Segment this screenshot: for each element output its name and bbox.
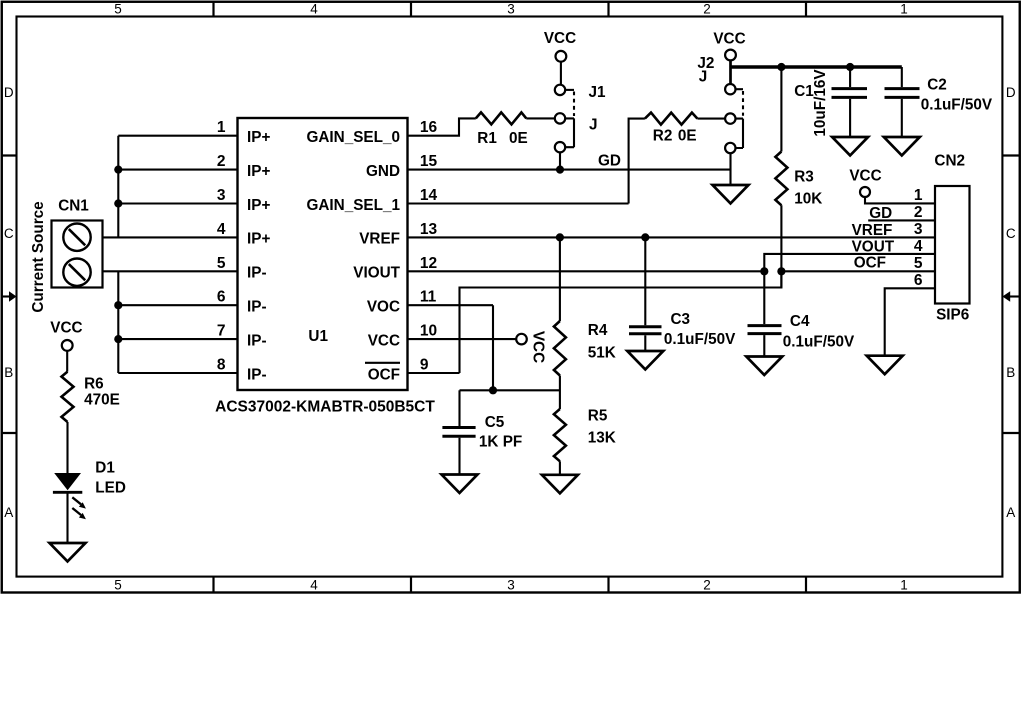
capacitor C2 bbox=[901, 67, 903, 87]
connector CN1 body bbox=[52, 221, 103, 288]
svg-text:1: 1 bbox=[900, 578, 908, 593]
svg-text:CN2: CN2 bbox=[934, 153, 965, 170]
wire R1 to J1 pin2 bbox=[526, 117, 555, 119]
svg-text:C3: C3 bbox=[671, 311, 691, 328]
svg-text:14: 14 bbox=[420, 187, 438, 204]
svg-text:R1: R1 bbox=[477, 130, 497, 147]
junction dot rail-C1 bbox=[846, 63, 854, 71]
frame zone ticks top bbox=[214, 2, 807, 17]
svg-text:C: C bbox=[1006, 226, 1016, 241]
wire D1 to ground bbox=[66, 492, 68, 543]
svg-text:R4: R4 bbox=[588, 322, 608, 339]
ground below C5 bbox=[442, 475, 478, 494]
CN1 screw terminal 1 bbox=[63, 224, 90, 251]
jumper J2 bbox=[725, 84, 735, 94]
svg-text:3: 3 bbox=[217, 187, 226, 204]
svg-text:IP+: IP+ bbox=[247, 163, 270, 180]
svg-text:3: 3 bbox=[507, 578, 515, 593]
svg-text:C2: C2 bbox=[927, 77, 947, 94]
svg-text:LED: LED bbox=[95, 479, 126, 496]
resistor R4 bbox=[554, 321, 566, 376]
wire R2 to J2 pin2 bbox=[697, 118, 725, 120]
svg-text:5: 5 bbox=[217, 255, 226, 272]
svg-text:GND: GND bbox=[366, 163, 400, 180]
svg-text:3: 3 bbox=[914, 221, 923, 238]
svg-text:GD: GD bbox=[598, 153, 621, 170]
svg-text:7: 7 bbox=[217, 323, 226, 340]
svg-text:0.1uF/50V: 0.1uF/50V bbox=[921, 96, 993, 113]
wire pin15 GND / GD net bbox=[408, 169, 731, 171]
svg-text:4: 4 bbox=[217, 221, 226, 238]
ground below R5 bbox=[542, 475, 578, 494]
junction dot pin3 bus bbox=[114, 199, 122, 207]
svg-text:VCC: VCC bbox=[50, 319, 82, 336]
wire R5 to ground bbox=[559, 461, 561, 475]
svg-text:2: 2 bbox=[217, 153, 226, 170]
svg-text:4: 4 bbox=[310, 2, 318, 17]
wire pin16 to R1 bbox=[408, 118, 476, 135]
svg-text:GD: GD bbox=[869, 205, 892, 222]
svg-text:13: 13 bbox=[420, 221, 438, 238]
wire pin2 bbox=[118, 169, 237, 171]
svg-text:4: 4 bbox=[914, 238, 923, 255]
wire CN2 pin2 GD bbox=[868, 219, 935, 221]
svg-text:B: B bbox=[4, 365, 13, 380]
svg-text:OCF: OCF bbox=[368, 366, 400, 383]
connector CN2 body bbox=[935, 186, 970, 304]
svg-text:IP-: IP- bbox=[247, 299, 267, 316]
svg-text:VCC: VCC bbox=[544, 30, 576, 47]
svg-text:1: 1 bbox=[217, 119, 226, 136]
svg-text:IP+: IP+ bbox=[247, 129, 270, 146]
svg-text:VCC: VCC bbox=[368, 332, 400, 349]
frame zone ticks left bbox=[2, 156, 17, 434]
svg-text:VCC: VCC bbox=[530, 331, 547, 363]
capacitor C1 bbox=[849, 67, 851, 87]
svg-text:2: 2 bbox=[914, 204, 923, 221]
svg-text:51K: 51K bbox=[588, 345, 616, 362]
VCC symbol at pin10 bbox=[516, 334, 527, 345]
svg-text:Current Source: Current Source bbox=[30, 201, 47, 312]
svg-text:1: 1 bbox=[900, 2, 908, 17]
svg-text:C: C bbox=[4, 226, 14, 241]
wire CN2 pin6 to ground bbox=[885, 288, 935, 355]
svg-text:2: 2 bbox=[703, 578, 711, 593]
wire IP+ bus (pins 1-3 to pin4 wire) bbox=[117, 136, 119, 238]
wire VCC to R6 bbox=[66, 351, 68, 372]
ground below C2 bbox=[884, 137, 920, 156]
svg-text:12: 12 bbox=[420, 255, 437, 272]
svg-text:C4: C4 bbox=[790, 313, 810, 330]
junction dot VREF-C3 bbox=[641, 233, 649, 241]
wire R4 to junction bbox=[559, 376, 561, 410]
resistor R1 bbox=[476, 112, 527, 124]
wire VIOUT pin12 bbox=[408, 270, 765, 272]
ground below D1 bbox=[50, 543, 86, 562]
svg-text:13K: 13K bbox=[588, 430, 616, 447]
svg-text:VIOUT: VIOUT bbox=[353, 265, 400, 282]
svg-text:U1: U1 bbox=[308, 328, 328, 345]
svg-text:11: 11 bbox=[420, 289, 437, 306]
svg-text:1: 1 bbox=[914, 187, 923, 204]
wire J2 pin3 down through GD line to ground bbox=[729, 153, 731, 185]
svg-text:1K PF: 1K PF bbox=[479, 433, 522, 450]
frame center arrow left bbox=[2, 295, 9, 297]
svg-text:5: 5 bbox=[914, 255, 923, 272]
junction dot J1-GND bbox=[556, 166, 564, 174]
junction dot pin6 bus bbox=[114, 301, 122, 309]
svg-text:5: 5 bbox=[114, 2, 122, 17]
svg-text:VOUT: VOUT bbox=[852, 239, 895, 256]
wire IP- bus (pins 6-8) bbox=[117, 271, 119, 373]
wire pin9 OCF bbox=[408, 372, 460, 374]
frame zone ticks right bbox=[1002, 156, 1019, 434]
svg-text:0E: 0E bbox=[678, 127, 697, 144]
svg-text:D1: D1 bbox=[95, 459, 115, 476]
svg-text:2: 2 bbox=[703, 2, 711, 17]
svg-text:J1: J1 bbox=[589, 84, 607, 101]
frame inner border bbox=[17, 17, 1003, 577]
svg-text:8: 8 bbox=[217, 357, 226, 374]
wire pin1 bbox=[118, 135, 237, 137]
frame center arrow right bbox=[1010, 295, 1020, 297]
resistor R5 bbox=[554, 409, 566, 461]
svg-text:VREF: VREF bbox=[852, 222, 893, 239]
junction dot VOC-C5 line bbox=[489, 386, 497, 394]
wire J1 pin3 to GND line bbox=[559, 153, 561, 170]
svg-text:C5: C5 bbox=[485, 414, 505, 431]
svg-text:R2: R2 bbox=[653, 127, 673, 144]
wire pin10 to VCC bbox=[408, 338, 517, 340]
svg-text:10uF/16V: 10uF/16V bbox=[812, 69, 829, 137]
svg-text:3: 3 bbox=[507, 2, 515, 17]
svg-text:6: 6 bbox=[914, 272, 923, 289]
svg-text:IP-: IP- bbox=[247, 265, 267, 282]
wire VREF dot down to R4 bbox=[559, 237, 561, 321]
ground below CN2 pin6 bbox=[867, 356, 903, 375]
wire pin7 bbox=[118, 338, 237, 340]
capacitor C3 bbox=[644, 237, 646, 325]
diode D1 LED bbox=[54, 473, 81, 490]
wire R4-R5 junction line to C5 bbox=[460, 389, 560, 391]
wire R3 to OCF line bbox=[780, 205, 782, 287]
svg-text:15: 15 bbox=[420, 153, 438, 170]
svg-text:16: 16 bbox=[420, 119, 438, 136]
svg-text:R5: R5 bbox=[588, 408, 608, 425]
svg-text:VOC: VOC bbox=[367, 299, 400, 316]
wire pin14 GAIN_SEL_1 to R2 bbox=[408, 119, 645, 204]
LED emission arrows bbox=[72, 497, 81, 504]
junction dot rail-R3 bbox=[777, 63, 785, 71]
junction dot OCF-R3 bbox=[777, 267, 785, 275]
VCC rail top right bbox=[731, 65, 902, 68]
wire VOUT jog to CN2 pin4 bbox=[764, 254, 935, 271]
svg-text:IP+: IP+ bbox=[247, 197, 270, 214]
svg-text:0.1uF/50V: 0.1uF/50V bbox=[664, 331, 736, 348]
wire OCF route down and left bbox=[460, 271, 782, 373]
ground below C4 bbox=[746, 357, 782, 376]
svg-text:9: 9 bbox=[420, 357, 429, 374]
junction dot pin7 bus bbox=[114, 335, 122, 343]
resistor R3 bbox=[775, 152, 787, 206]
svg-text:ACS37002-KMABTR-050B5CT: ACS37002-KMABTR-050B5CT bbox=[215, 399, 435, 416]
svg-text:OCF: OCF bbox=[854, 254, 886, 271]
wire VCC to J2 pin1 bbox=[729, 61, 732, 84]
svg-text:J: J bbox=[699, 69, 708, 86]
CN1 screw terminal 2 bbox=[63, 259, 90, 286]
wire pin4 from CN1 screw1 bbox=[103, 236, 238, 238]
wire CN2 pin1 bbox=[865, 197, 935, 203]
wire pin6 bbox=[118, 304, 237, 306]
svg-text:A: A bbox=[1006, 505, 1015, 520]
svg-text:0.1uF/50V: 0.1uF/50V bbox=[783, 334, 855, 351]
junction dot VREF-R4 bbox=[556, 233, 564, 241]
wire pin8 bbox=[118, 372, 237, 374]
svg-text:5: 5 bbox=[114, 578, 122, 593]
svg-text:SIP6: SIP6 bbox=[936, 307, 969, 324]
ground below C3 bbox=[627, 351, 663, 370]
ground below C1 bbox=[832, 137, 868, 156]
svg-text:A: A bbox=[4, 505, 13, 520]
junction dot VIOUT-VOUT-C4 bbox=[760, 267, 768, 275]
capacitor C4 bbox=[763, 271, 765, 324]
wire pin3 bbox=[118, 202, 237, 204]
svg-text:VCC: VCC bbox=[849, 167, 881, 184]
wire OCF net to CN2 pin5 bbox=[781, 270, 935, 272]
svg-text:GAIN_SEL_0: GAIN_SEL_0 bbox=[306, 129, 400, 146]
svg-text:10K: 10K bbox=[794, 191, 822, 208]
wire pin5 from CN1 screw2 bbox=[103, 270, 238, 272]
svg-text:0E: 0E bbox=[509, 130, 528, 147]
wire VREF pin13 to CN2 pin3 bbox=[408, 236, 936, 238]
wire VCC to J1 pin1 bbox=[560, 62, 562, 85]
svg-text:R6: R6 bbox=[84, 376, 104, 393]
junction dot pin2 bus bbox=[114, 166, 122, 174]
svg-text:IP-: IP- bbox=[247, 366, 267, 383]
svg-text:D: D bbox=[4, 85, 14, 100]
svg-text:GAIN_SEL_1: GAIN_SEL_1 bbox=[306, 197, 400, 214]
op-amp U1 ACS37002 body bbox=[238, 118, 408, 390]
svg-text:470E: 470E bbox=[84, 392, 120, 409]
svg-text:VCC: VCC bbox=[713, 31, 745, 48]
svg-text:10: 10 bbox=[420, 323, 437, 340]
svg-text:4: 4 bbox=[310, 578, 318, 593]
frame zone ticks bottom bbox=[214, 577, 807, 593]
svg-text:D: D bbox=[1006, 85, 1016, 100]
wire VCC rail to R3 bbox=[780, 67, 782, 152]
svg-text:IP+: IP+ bbox=[247, 231, 270, 248]
wire R6 to D1 bbox=[66, 422, 68, 473]
svg-text:B: B bbox=[1006, 365, 1015, 380]
svg-text:IP-: IP- bbox=[247, 332, 267, 349]
svg-text:VREF: VREF bbox=[359, 231, 400, 248]
svg-text:R3: R3 bbox=[794, 168, 814, 185]
svg-text:6: 6 bbox=[217, 289, 226, 306]
resistor R6 bbox=[62, 372, 74, 422]
wire pin11 VOC bbox=[408, 305, 494, 390]
svg-text:CN1: CN1 bbox=[58, 198, 89, 215]
svg-text:J: J bbox=[589, 117, 598, 134]
jumper J1 bbox=[555, 85, 565, 95]
ground below J2 bbox=[713, 185, 749, 204]
resistor R2 bbox=[645, 113, 698, 125]
capacitor C5 bbox=[458, 390, 460, 426]
